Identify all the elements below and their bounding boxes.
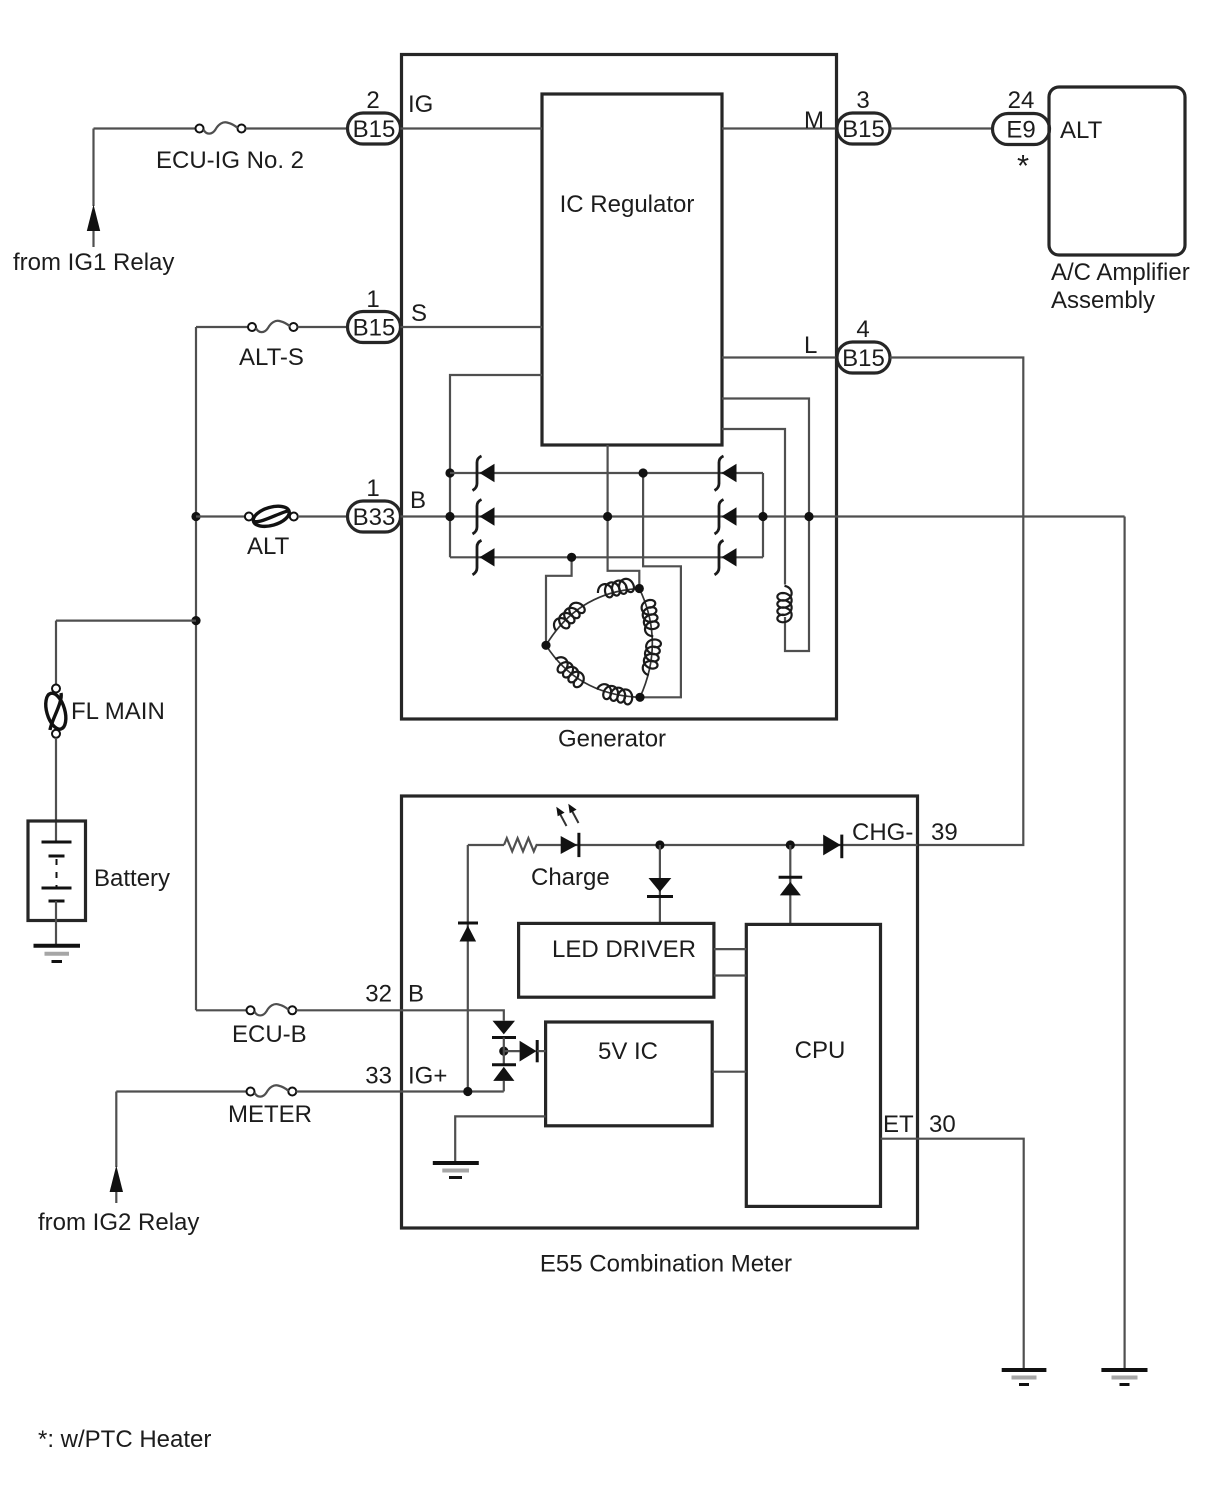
node bus row2 [445,512,454,521]
generator box [402,55,837,720]
stator node top [635,584,644,593]
A/C amplifier assembly box [1049,87,1185,255]
stator coil segments [550,577,661,705]
ground ET [1002,1370,1047,1385]
wire to CPU top [789,845,791,924]
LED driver box [519,923,714,997]
svg-text:ECU-IG No. 2: ECU-IG No. 2 [156,147,304,174]
svg-text:CPU: CPU [795,1037,846,1064]
wire IG+ inside meter [402,1090,504,1092]
svg-text:L: L [804,332,817,359]
wire ALT-S left segment [196,326,248,328]
stator winding ring [546,589,652,698]
ground battery [34,946,81,962]
rotor wires [722,399,809,652]
svg-text:1: 1 [366,286,379,313]
connector 4 B15 [837,342,890,373]
battery [28,821,86,921]
LED driver to CPU link 1 [714,948,746,950]
wire IC regulator bottom to stator top node [608,445,640,589]
battery vertical upper [55,621,57,685]
diode D5 row2 right [715,500,737,535]
diode D4 row1 right [715,456,737,491]
svg-text:*: * [1017,148,1029,183]
B line vertical to ground [1123,517,1125,1371]
svg-text:33: 33 [365,1063,392,1090]
diode D6 row3 right [715,540,737,575]
svg-text:from IG1 Relay: from IG1 Relay [13,249,174,276]
node charge row 2 [786,840,795,849]
svg-text:ALT: ALT [1060,117,1103,144]
wire B33 right segment [298,515,348,517]
wire IG inside generator [401,127,543,129]
wire ECU-IG No.2 left segment [94,127,196,129]
ground 5V IC [433,1163,479,1178]
wire ALT-S right segment [298,326,348,328]
wire B33 left segment [196,515,245,517]
svg-text:B: B [408,981,424,1008]
svg-text:CHG-: CHG- [852,819,913,846]
wire row1 to stator bottom node [640,473,681,697]
svg-text:B15: B15 [353,116,396,143]
wire ECU-B left segment [196,1009,247,1011]
connector 1 B15 [348,312,401,343]
arrow from IG1 relay [87,205,100,232]
connector 24 E9 [993,114,1050,145]
svg-text:ALT-S: ALT-S [239,344,304,371]
svg-text:E9: E9 [1006,117,1035,144]
stator node left [541,641,550,650]
diode D11 to 5V IC [504,1040,546,1062]
wire S inside generator [401,326,543,328]
diode row 3 wire [450,556,763,558]
rotor coil [777,586,791,623]
wire row3 to stator left node [546,557,572,645]
diode D7 on branch [458,923,478,942]
combination meter box [402,796,918,1228]
svg-text:3: 3 [856,87,869,114]
svg-text:39: 39 [931,819,958,846]
svg-text:IG: IG [408,91,433,118]
wire ECU-B right segment [296,1009,401,1011]
5V IC box [546,1022,713,1126]
fuse ALT-S [248,323,256,331]
B line through generator to right side [401,515,1125,517]
svg-text:ECU-B: ECU-B [232,1021,307,1048]
battery ground wire [55,901,57,946]
node bus row1 [445,468,454,477]
node right bus B [758,512,767,521]
svg-text:ET: ET [883,1111,914,1138]
svg-text:1: 1 [366,475,379,502]
svg-text:*: w/PTC Heater: *: w/PTC Heater [38,1426,211,1453]
5V IC to CPU link [712,1071,746,1073]
svg-text:E55 Combination Meter: E55 Combination Meter [540,1251,792,1278]
node at B33 line [191,512,200,521]
svg-text:Generator: Generator [558,726,666,753]
svg-text:from IG2 Relay: from IG2 Relay [38,1209,199,1236]
svg-text:5V IC: 5V IC [598,1038,658,1065]
connector 1 B33 [348,501,401,532]
svg-text:A/C Amplifier: A/C Amplifier [1051,259,1190,286]
diode D10 CHG [823,835,842,859]
IC regulator box U1 [542,94,722,445]
svg-text:B15: B15 [842,116,885,143]
LED charge lamp [561,833,579,857]
fusible link ALT [245,513,253,521]
fusible link FL MAIN [52,685,60,693]
charge lamp branch vertical [467,845,469,1091]
battery tap wire [56,619,196,621]
diode D9 to CPU [779,877,803,895]
svg-text:FL MAIN: FL MAIN [71,698,165,725]
svg-text:4: 4 [856,316,869,343]
wire ET [881,1139,1024,1370]
5V IC ground wire [455,1116,545,1163]
svg-text:Battery: Battery [94,865,170,892]
fuse ECU-IG No. 2 [196,125,204,133]
wire to LED driver [659,845,661,923]
svg-text:IC Regulator: IC Regulator [560,191,695,218]
wire from IG1 relay vertical [92,129,94,207]
svg-text:ALT: ALT [247,533,290,560]
connector 2 B15 [348,113,401,144]
node zener mid [499,1047,508,1056]
wire B inside meter [402,1010,504,1020]
svg-text:Assembly: Assembly [1051,287,1155,314]
connector 3 B15 [837,113,890,144]
svg-text:B15: B15 [353,315,396,342]
diode D8 to LED driver [647,878,673,897]
node row1 [639,468,648,477]
wire ECU-IG No.2 right segment [246,127,348,129]
wire L inside generator [722,356,837,358]
node row3 [567,553,576,562]
node charge row 1 [655,840,664,849]
diode D1 row1 left [473,456,495,491]
zener Z2 [492,1065,516,1081]
node rotor on B line [804,512,813,521]
ground B line [1101,1370,1147,1385]
node on B line [603,512,612,521]
battery vertical lower [55,738,57,842]
long vertical wire x=196 [195,327,197,1010]
right diode bus [762,473,764,557]
svg-text:B: B [410,487,426,514]
svg-text:Charge: Charge [531,864,610,891]
svg-text:2: 2 [366,87,379,114]
wire METER left segment [116,1090,246,1092]
svg-text:32: 32 [365,981,392,1008]
svg-text:30: 30 [929,1111,956,1138]
diode row 1 wire [450,472,763,474]
stator node bottom [635,693,644,702]
svg-text:B15: B15 [842,345,885,372]
node IG+ branch [463,1087,472,1096]
wire after resistor [537,844,918,846]
svg-text:LED DRIVER: LED DRIVER [552,936,696,963]
diode D3 row3 left [473,540,495,575]
LED emission arrows [556,804,578,826]
wire B15 to E9 [890,127,993,129]
svg-text:B33: B33 [353,504,396,531]
svg-text:24: 24 [1008,87,1035,114]
diode D2 row2 left [473,500,495,535]
fuse METER [247,1088,255,1096]
wire L to combination meter [890,358,1023,846]
node at battery tap [191,616,200,625]
resistor R1 [504,838,537,851]
svg-text:IG+: IG+ [408,1063,447,1090]
IC regulator left stub to diode bus [450,375,542,557]
arrow from IG2 relay [110,1166,123,1193]
wire M inside generator [722,127,837,129]
wire from IG2 relay vertical [115,1092,117,1168]
svg-text:S: S [411,300,427,327]
CPU box [746,924,880,1206]
wire METER right segment [296,1090,401,1092]
charge row wire [468,844,504,846]
fuse ECU-B [247,1006,255,1014]
svg-text:METER: METER [228,1101,312,1128]
LED driver to CPU link 2 [714,974,746,976]
zener Z1 [492,1021,516,1038]
svg-text:M: M [804,107,824,134]
